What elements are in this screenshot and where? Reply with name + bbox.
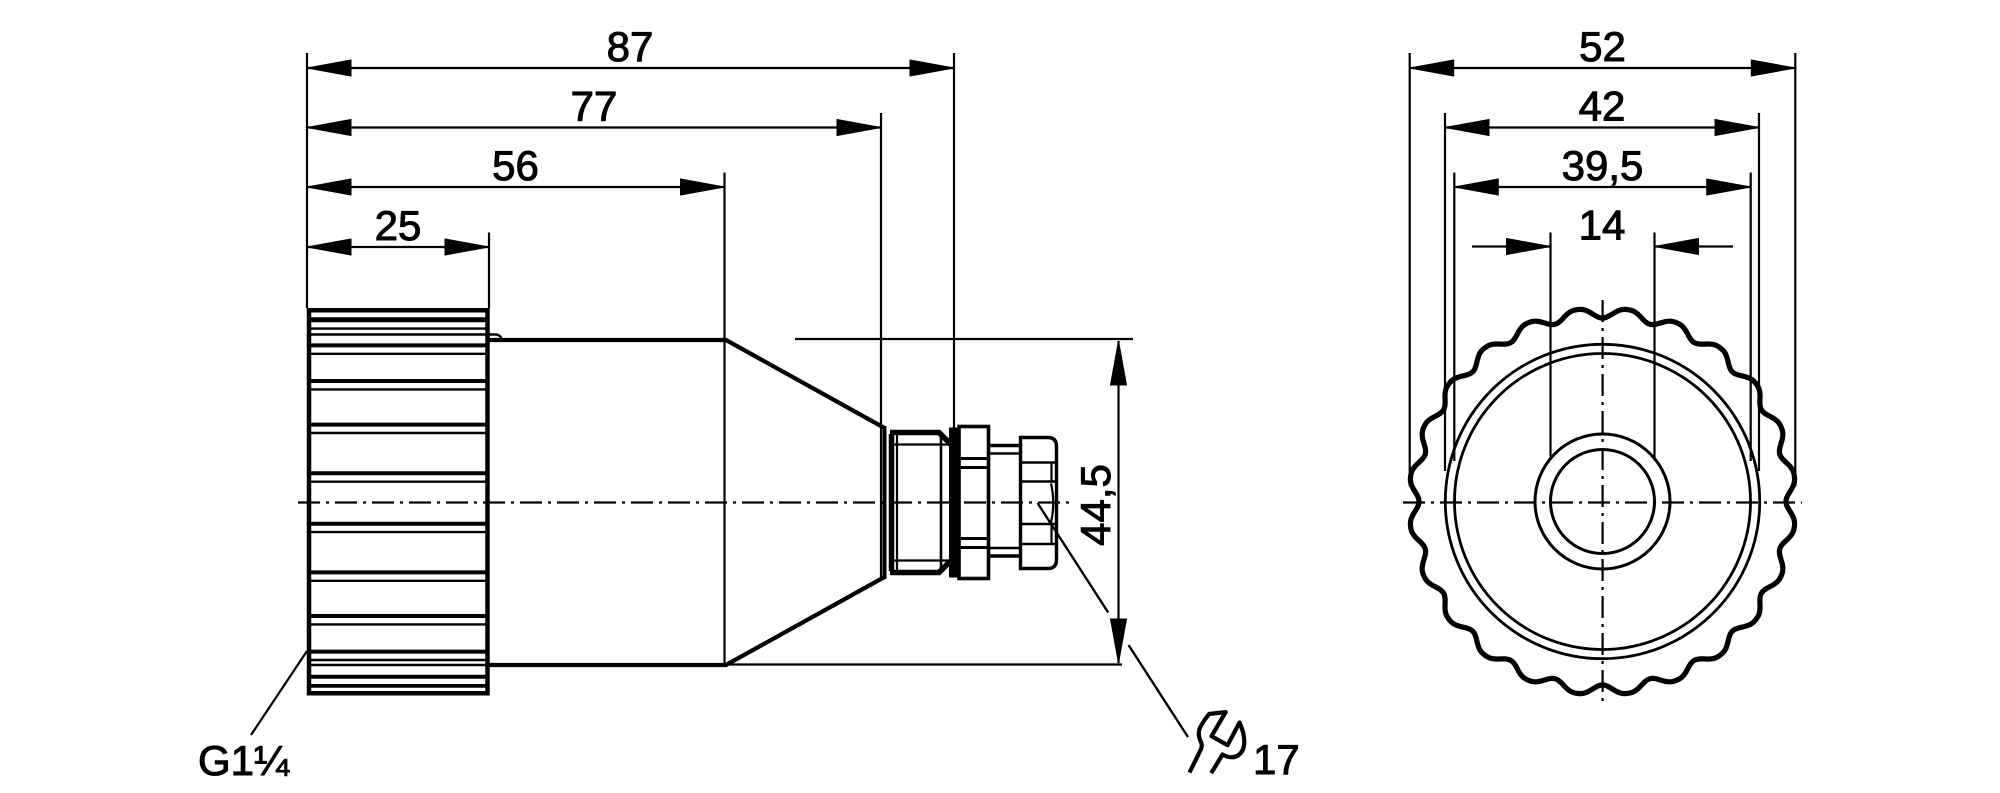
dimension 14 (front view) (1472, 202, 1733, 461)
svg-text:25: 25 (375, 202, 422, 249)
svg-text:56: 56 (492, 142, 539, 189)
centerline horizontal front view (1403, 501, 1802, 503)
svg-text:52: 52 (1579, 23, 1626, 70)
dimension 77 (left view) (307, 83, 881, 136)
dimension 56 (left view) (307, 142, 725, 195)
extension line 77 (x=881) (880, 113, 882, 577)
threaded barrel M18 (890, 432, 952, 573)
centerline left view (298, 501, 1074, 503)
knurl groove lines (311, 319, 502, 687)
svg-text:G1¼: G1¼ (198, 737, 290, 784)
extension line left (x=307) (306, 53, 308, 308)
extension line 87 (x=954) (953, 53, 955, 430)
centerline vertical front view (1601, 300, 1603, 702)
extension line 25 (x=489) (488, 233, 490, 309)
dimension 44,5 (729, 339, 1133, 665)
leader line G1 1/4 (251, 651, 307, 735)
dimension 87 (left view) (307, 23, 954, 76)
flange (thick collar) (950, 428, 959, 577)
leader line wrench (lower segment) (1129, 645, 1189, 737)
svg-text:44,5: 44,5 (1072, 464, 1119, 546)
dimension 39,5 (front view) (1454, 142, 1750, 461)
wrench icon SW17 (1190, 712, 1245, 773)
circle 39.5 (1455, 354, 1751, 650)
svg-text:77: 77 (571, 83, 618, 130)
knurled cap outline (307, 308, 490, 696)
washer hex section (958, 427, 990, 579)
body cylinder (488, 340, 727, 665)
circle 14 connector bore (1551, 450, 1655, 554)
knurled coupling nut M12 (1021, 438, 1057, 569)
svg-text:42: 42 (1579, 83, 1626, 130)
dimension 25 (left view) (307, 202, 489, 255)
svg-text:87: 87 (607, 23, 654, 70)
circle 42 (1445, 344, 1759, 658)
leader line wrench (upper segment) (1038, 503, 1109, 613)
knurled circumference (scalloped) (1410, 309, 1794, 693)
svg-text:39,5: 39,5 (1562, 142, 1644, 189)
extension line 56 (x=724.5) (723, 173, 725, 666)
svg-text:14: 14 (1579, 202, 1626, 249)
dimension 42 (front view) (1445, 83, 1759, 472)
svg-text:17: 17 (1253, 736, 1300, 783)
circle 18 connector boss (1535, 434, 1670, 569)
dimension 52 (front view) (1410, 23, 1796, 486)
neck cylinder (990, 446, 1019, 557)
taper cone (726, 340, 885, 665)
